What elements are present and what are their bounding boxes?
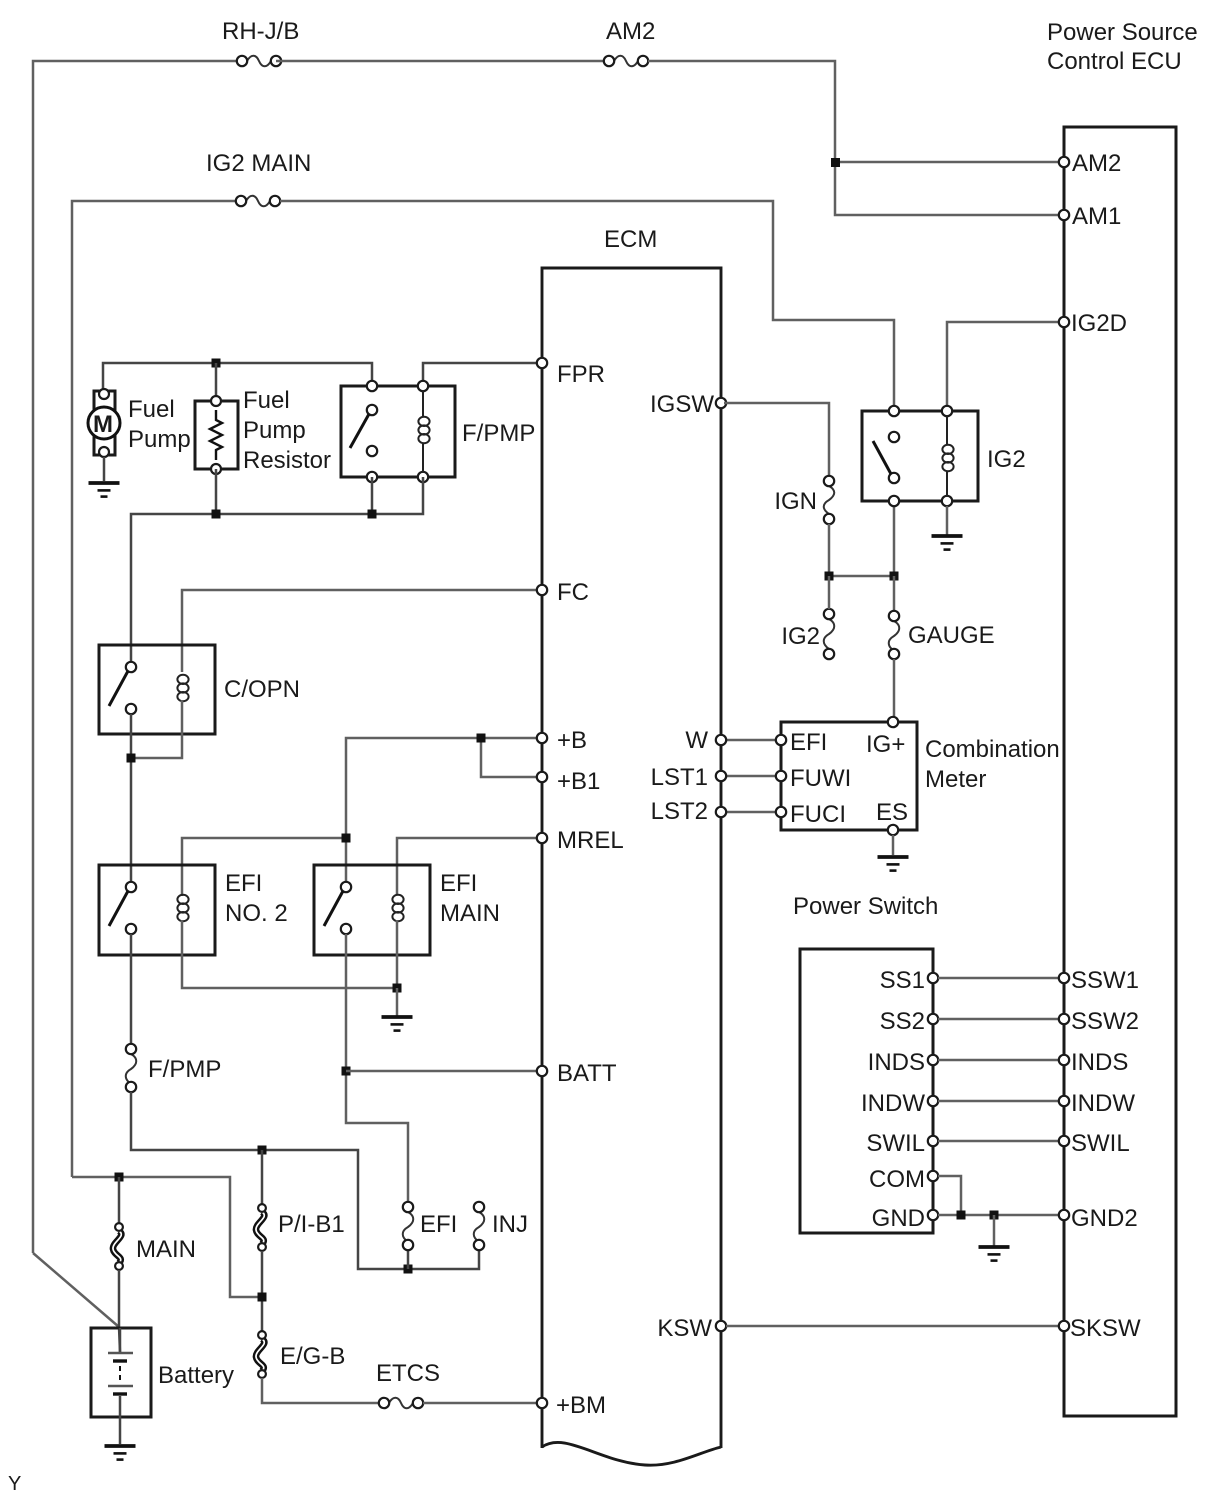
svg-text:GND2: GND2 xyxy=(1071,1205,1138,1232)
wire coil bottoms to ground xyxy=(182,920,397,988)
wire +B1 branch xyxy=(481,738,539,777)
svg-text:Pump: Pump xyxy=(243,417,306,444)
wire MREL to EFI MAIN coil xyxy=(397,838,539,895)
junction E/G-B top xyxy=(258,1293,267,1302)
fuel pump motor M xyxy=(88,389,120,457)
terminal INDS (switch) xyxy=(928,1055,938,1065)
svg-text:IG2 MAIN: IG2 MAIN xyxy=(206,150,311,177)
wire ES to ground xyxy=(892,835,895,855)
svg-text:INDW: INDW xyxy=(1071,1090,1135,1117)
svg-text:Meter: Meter xyxy=(925,766,986,793)
junction +B/+B1 xyxy=(477,734,486,743)
svg-text:SSW1: SSW1 xyxy=(1071,967,1139,994)
terminal INDW (switch) xyxy=(928,1096,938,1106)
svg-text:Fuel: Fuel xyxy=(243,387,290,414)
junction COM/GND xyxy=(957,1211,966,1220)
ECM bottom wavy edge xyxy=(542,1442,721,1465)
svg-text:Power Switch: Power Switch xyxy=(793,893,938,920)
svg-text:EFI: EFI xyxy=(420,1211,457,1238)
fuse AM2 xyxy=(614,56,638,67)
svg-text:IGN: IGN xyxy=(774,488,817,515)
terminal IG+ (meter) xyxy=(888,717,898,727)
svg-text:Combination: Combination xyxy=(925,736,1060,763)
wire relay switch bottom drop xyxy=(371,477,374,514)
svg-text:Fuel: Fuel xyxy=(128,396,175,423)
svg-text:P/I-B1: P/I-B1 xyxy=(278,1211,345,1238)
svg-text:MAIN: MAIN xyxy=(136,1236,196,1263)
junction ground tap xyxy=(990,1211,999,1220)
svg-text:SWIL: SWIL xyxy=(866,1130,925,1157)
wire LST2 to meter FUCI xyxy=(724,811,778,814)
terminal GND2 xyxy=(1059,1210,1069,1220)
wire EFI NO.2 coil feed xyxy=(182,838,346,896)
svg-text:COM: COM xyxy=(869,1166,925,1193)
svg-text:IGSW: IGSW xyxy=(650,391,714,418)
wire to MAIN link xyxy=(118,1177,121,1223)
svg-text:AM2: AM2 xyxy=(606,18,655,45)
wire GAUGE fuse to meter IG+ xyxy=(893,659,896,719)
terminal SKSW xyxy=(1059,1321,1069,1331)
wire P/I-B1 to E/G-B xyxy=(261,1251,264,1331)
svg-text:FPR: FPR xyxy=(557,361,605,388)
wire BATT xyxy=(346,1070,539,1073)
terminal INDS (ECU) xyxy=(1059,1055,1069,1065)
wire IG2 MAIN to IG2 relay xyxy=(280,201,894,412)
relay EFI NO.2 xyxy=(99,865,215,955)
junction EFI fuse bottom xyxy=(404,1265,413,1274)
svg-text:Power Source: Power Source xyxy=(1047,19,1198,46)
fuse IGN xyxy=(824,486,835,514)
wire ECM FC to C/OPN coil xyxy=(182,590,539,672)
terminal +BM xyxy=(537,1398,547,1408)
wire C/OPN switch bottom down xyxy=(130,714,133,884)
junction EFI NO.2 coil feed on +B drop xyxy=(342,834,351,843)
wire resistor bottom drop xyxy=(215,469,218,514)
ground battery xyxy=(105,1446,136,1460)
fusible link RH-J/B xyxy=(247,56,271,67)
terminal EFI (meter) xyxy=(776,735,786,745)
terminal ES (meter) xyxy=(888,825,898,835)
wire IG2 MAIN xyxy=(72,201,236,1177)
wire IG2D to IG2 relay coil xyxy=(947,322,1061,412)
ground fuel pump xyxy=(89,483,120,497)
junction MAIN link xyxy=(115,1173,124,1182)
svg-text:E/G-B: E/G-B xyxy=(280,1343,345,1370)
wire MAIN link to battery xyxy=(119,1270,120,1352)
svg-text:IG+: IG+ xyxy=(866,731,905,758)
junction GAUGE xyxy=(890,572,899,581)
svg-text:IG2: IG2 xyxy=(987,446,1026,473)
svg-text:ETCS: ETCS xyxy=(376,1360,440,1387)
wire IGSW to IGN fuse xyxy=(724,403,829,476)
svg-text:EFI: EFI xyxy=(225,870,262,897)
svg-text:F/PMP: F/PMP xyxy=(148,1056,221,1083)
battery xyxy=(91,1328,151,1417)
relay F/PMP xyxy=(341,381,455,482)
resistor R (fuel pump resistor) xyxy=(195,396,238,474)
wire KSW-SKSW xyxy=(726,1325,1059,1328)
terminal FC xyxy=(537,585,547,595)
svg-text:INJ: INJ xyxy=(492,1211,528,1238)
ground EFI MAIN coil xyxy=(382,1017,413,1031)
terminal LST2 xyxy=(716,807,726,817)
fuse IG2 xyxy=(824,619,835,649)
ground power switch xyxy=(979,1247,1010,1261)
svg-text:Pump: Pump xyxy=(128,426,191,453)
terminal +B xyxy=(537,733,547,743)
terminal BATT xyxy=(537,1066,547,1076)
svg-text:INDW: INDW xyxy=(861,1090,925,1117)
svg-text:+BM: +BM xyxy=(556,1392,606,1419)
svg-text:MREL: MREL xyxy=(557,827,624,854)
wire fuel pump to F/PMP relay switch (FPR bus left) xyxy=(103,363,372,395)
terminal AM1 xyxy=(1059,210,1069,220)
relay IG2 xyxy=(862,406,978,506)
wire pump bottom bus xyxy=(131,477,423,666)
svg-text:FUWI: FUWI xyxy=(790,765,851,792)
fusible link IG2 MAIN xyxy=(246,196,270,207)
svg-text:+B1: +B1 xyxy=(557,768,600,795)
junction coil ground xyxy=(393,984,402,993)
terminal W xyxy=(716,735,726,745)
svg-text:+B: +B xyxy=(557,727,587,754)
svg-text:SS1: SS1 xyxy=(880,967,925,994)
wire E/G-B to ETCS fuse xyxy=(262,1378,379,1403)
svg-text:AM2: AM2 xyxy=(1072,150,1121,177)
terminal INDW (ECU) xyxy=(1059,1096,1069,1106)
power switch box xyxy=(800,949,933,1233)
svg-text:ECM: ECM xyxy=(604,226,657,253)
relay C/OPN xyxy=(99,645,215,734)
power source control ECU box xyxy=(1064,127,1176,1416)
fuse EFI xyxy=(403,1212,414,1242)
wire diagonal to battery xyxy=(33,1253,119,1327)
svg-text:BATT: BATT xyxy=(557,1060,617,1087)
terminal SWIL (ECU) xyxy=(1059,1136,1069,1146)
wire COM down to GND wire xyxy=(938,1176,961,1215)
wire branch to AM2 terminal xyxy=(835,161,1061,164)
wire +B bus xyxy=(346,738,539,884)
junction below C/OPN xyxy=(127,754,136,763)
wire junction to IG2 fuse xyxy=(828,576,831,609)
fusible link E/G-B xyxy=(256,1339,264,1371)
junction BATT xyxy=(342,1067,351,1076)
terminal SSW2 xyxy=(1059,1014,1069,1024)
junction resistor top xyxy=(212,359,221,368)
junction IGN/IG2 xyxy=(825,572,834,581)
svg-text:INDS: INDS xyxy=(1071,1049,1128,1076)
fuse F/PMP xyxy=(126,1054,137,1084)
wire AM2 fuse to ECU xyxy=(648,61,1061,215)
svg-text:SSW2: SSW2 xyxy=(1071,1008,1139,1035)
terminal COM xyxy=(928,1171,938,1181)
wire IG2 relay coil to ground xyxy=(946,506,949,535)
terminal FUCI (meter) xyxy=(776,807,786,817)
wire resistor top drop xyxy=(215,363,218,400)
wire to P/I-B1 xyxy=(261,1150,264,1204)
svg-text:EFI: EFI xyxy=(440,870,477,897)
wire IG2 MAIN drop bottom bus xyxy=(72,1177,262,1297)
svg-text:Y: Y xyxy=(8,1473,21,1495)
ground IG2 relay xyxy=(932,536,963,550)
svg-text:AM1: AM1 xyxy=(1072,203,1121,230)
fuse INJ xyxy=(474,1212,485,1242)
svg-text:FUCI: FUCI xyxy=(790,801,846,828)
terminal SS2 xyxy=(928,1014,938,1024)
svg-text:MAIN: MAIN xyxy=(440,900,500,927)
fusible link MAIN xyxy=(113,1231,121,1263)
wire EFI NO.2 switch to F/PMP fuse xyxy=(130,934,133,1044)
terminal SWIL (switch) xyxy=(928,1136,938,1146)
svg-text:GAUGE: GAUGE xyxy=(908,622,995,649)
svg-text:SWIL: SWIL xyxy=(1071,1130,1130,1157)
wire junction to GAUGE fuse xyxy=(893,576,896,611)
svg-text:Control ECU: Control ECU xyxy=(1047,48,1182,75)
fusible link P/I-B1 xyxy=(256,1212,264,1244)
svg-text:EFI: EFI xyxy=(790,729,827,756)
svg-text:SKSW: SKSW xyxy=(1070,1315,1141,1342)
svg-text:GND: GND xyxy=(872,1205,925,1232)
wire to ground EFI MAIN xyxy=(396,988,399,1016)
wire INDW xyxy=(938,1100,1059,1103)
svg-text:FC: FC xyxy=(557,579,589,606)
terminal MREL xyxy=(537,833,547,843)
wire F/PMP fuse to EFI/INJ bottoms xyxy=(131,1092,479,1269)
fuse ETCS xyxy=(389,1398,413,1409)
wire battery to ground xyxy=(119,1417,122,1444)
wire RH-J/B to AM2 fuse xyxy=(276,60,604,63)
terminal IGSW xyxy=(716,398,726,408)
terminal LST1 xyxy=(716,771,726,781)
junction relay switch bottom xyxy=(368,510,377,519)
svg-text:F/PMP: F/PMP xyxy=(462,420,535,447)
svg-text:NO. 2: NO. 2 xyxy=(225,900,288,927)
wire GND-GND2 xyxy=(938,1214,1059,1217)
svg-text:ES: ES xyxy=(876,799,908,826)
svg-text:LST1: LST1 xyxy=(651,764,708,791)
wire EFI fuse bottom drop xyxy=(407,1250,410,1269)
svg-text:RH-J/B: RH-J/B xyxy=(222,18,299,45)
wire EFI MAIN switch to BATT and EFI fuse xyxy=(346,934,408,1202)
terminal SSW1 xyxy=(1059,973,1069,983)
terminal AM2 xyxy=(1059,157,1069,167)
wire SS1-SSW1 xyxy=(938,977,1059,980)
junction resistor bottom xyxy=(212,510,221,519)
relay EFI MAIN xyxy=(314,865,430,955)
ECM box left/top/right edges xyxy=(542,268,721,1448)
terminal GND xyxy=(928,1210,938,1220)
wire battery feed to RH-J/B xyxy=(33,61,237,1253)
svg-text:Battery: Battery xyxy=(158,1362,234,1389)
wire to ground power switch xyxy=(993,1215,996,1246)
combination meter box xyxy=(781,722,917,830)
fuse GAUGE xyxy=(889,621,900,651)
wire LST1 to meter FUWI xyxy=(724,775,778,778)
terminal IG2D xyxy=(1059,317,1069,327)
wire W to meter EFI xyxy=(724,739,778,742)
wire F/PMP relay coil to ECM FPR xyxy=(423,363,539,386)
wire ETCS to +BM xyxy=(423,1402,539,1405)
svg-text:Resistor: Resistor xyxy=(243,447,331,474)
svg-text:INDS: INDS xyxy=(868,1049,925,1076)
wire SS2-SSW2 xyxy=(938,1018,1059,1021)
wire SWIL xyxy=(938,1140,1059,1143)
wire INDS xyxy=(938,1059,1059,1062)
svg-text:C/OPN: C/OPN xyxy=(224,676,300,703)
svg-text:SS2: SS2 xyxy=(880,1008,925,1035)
terminal SS1 xyxy=(928,973,938,983)
svg-text:W: W xyxy=(685,727,708,754)
wire IGN fuse to junction xyxy=(829,506,894,576)
svg-text:LST2: LST2 xyxy=(651,798,708,825)
terminal FUWI (meter) xyxy=(776,771,786,781)
terminal KSW xyxy=(716,1321,726,1331)
svg-text:IG2D: IG2D xyxy=(1071,310,1127,337)
junction P/I-B1 top xyxy=(258,1146,267,1155)
wire C/OPN coil bottom to junction xyxy=(131,700,182,758)
wire fuel pump to ground xyxy=(103,457,106,481)
junction AM2/AM1 branch xyxy=(831,158,840,167)
svg-text:M: M xyxy=(93,411,113,438)
ground combination meter xyxy=(878,857,909,871)
svg-text:KSW: KSW xyxy=(657,1315,712,1342)
svg-text:IG2: IG2 xyxy=(781,623,820,650)
terminal +B1 xyxy=(537,772,547,782)
terminal FPR xyxy=(537,358,547,368)
